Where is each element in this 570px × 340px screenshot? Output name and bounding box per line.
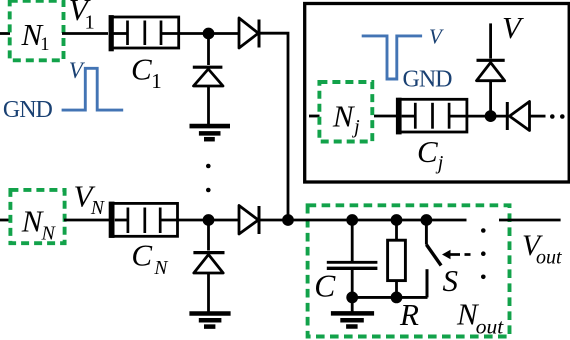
diode DJ (pointing left at node J) bbox=[507, 102, 529, 131]
svg-text:C: C bbox=[314, 269, 336, 304]
wire node J up to diode DV bbox=[489, 81, 492, 116]
svg-text:GND: GND bbox=[3, 97, 53, 123]
junction node R-bottom bbox=[391, 292, 403, 304]
svg-text:V1: V1 bbox=[69, 0, 95, 33]
wire NN to CN bbox=[64, 219, 109, 222]
wire C1 to node A bbox=[179, 32, 238, 35]
svg-text:Nj: Nj bbox=[332, 98, 360, 138]
wire Nj to Cj bbox=[374, 115, 397, 118]
junction node B bbox=[203, 214, 215, 226]
output wire Vout bbox=[499, 219, 561, 222]
wire DN to output node bbox=[260, 219, 288, 222]
junction node J bbox=[485, 110, 497, 122]
svg-text:S: S bbox=[443, 263, 459, 298]
diode DV (to supply V, pointing up) bbox=[477, 60, 505, 80]
actuation arrow (dashed, points at blade) bbox=[442, 250, 471, 259]
inset detail box (stage j) bbox=[305, 4, 570, 183]
svg-text:GND: GND bbox=[403, 66, 453, 92]
horizontal ellipsis (chain continues) bbox=[550, 114, 555, 119]
junction node S-top bbox=[421, 214, 433, 226]
neuron block NN (green dashed box) bbox=[10, 190, 64, 243]
junction node R-top bbox=[391, 214, 403, 226]
junction node OUT (bus joins) bbox=[282, 214, 294, 226]
junction node A bbox=[203, 28, 215, 40]
neuron block Nj (green dashed box) bbox=[319, 82, 372, 142]
junction node C-top bbox=[346, 214, 358, 226]
bottom rail wire bbox=[352, 296, 427, 299]
memcapacitor CN bbox=[109, 202, 178, 238]
ground Gout bbox=[331, 297, 374, 326]
svg-text:VN: VN bbox=[74, 179, 105, 219]
svg-text:V: V bbox=[69, 58, 86, 83]
clamp diode D2 (to ground, pointing up) bbox=[193, 34, 223, 126]
wire DJ to continuation dots bbox=[530, 115, 546, 118]
neuron block N1 (green dashed box) bbox=[10, 1, 64, 61]
ground GN bbox=[189, 314, 230, 327]
wire CN to node B bbox=[178, 219, 238, 222]
input pulse waveform 1 (positive pulse) bbox=[62, 68, 124, 110]
wire input stub to N1 bbox=[0, 32, 10, 35]
vertical ellipsis (repeated stages) bbox=[206, 164, 211, 169]
resistor R bbox=[388, 220, 406, 297]
ground G1 bbox=[190, 126, 231, 139]
capacitor C bbox=[327, 220, 378, 297]
svg-text:Nout: Nout bbox=[456, 297, 504, 339]
output block Nout (green dashed box) bbox=[308, 205, 510, 336]
memcapacitor Cj bbox=[396, 98, 467, 135]
wire input stub to Nj bbox=[309, 115, 320, 118]
svg-text:Vout: Vout bbox=[522, 230, 562, 269]
svg-text:V: V bbox=[429, 25, 444, 49]
wire diode DV to V supply bbox=[489, 23, 492, 58]
vertical ellipsis (more outputs) bbox=[481, 228, 486, 233]
output rail wire bbox=[288, 219, 467, 222]
svg-text:CN: CN bbox=[131, 238, 168, 279]
switch S (blade open) bbox=[426, 220, 441, 297]
wire N1 to C1 bbox=[62, 32, 108, 35]
svg-text:Cj: Cj bbox=[417, 134, 444, 174]
input pulse waveform j (negative pulse) bbox=[362, 36, 422, 79]
svg-text:R: R bbox=[399, 297, 419, 332]
wire D1 to output bus corner bbox=[260, 33, 288, 219]
junction node C-bottom bbox=[346, 292, 358, 304]
svg-text:C1: C1 bbox=[131, 52, 162, 93]
svg-text:V: V bbox=[502, 10, 524, 45]
clamp diode DNg (to ground, pointing up) bbox=[193, 220, 224, 313]
wire Cj to node J bbox=[467, 115, 506, 118]
memcapacitor C1 bbox=[109, 15, 179, 51]
diode DN series (pointing right) bbox=[239, 206, 259, 235]
diode D1 series (pointing right) bbox=[239, 18, 259, 48]
wire input stub to NN bbox=[0, 219, 10, 222]
svg-text:NN: NN bbox=[21, 204, 57, 245]
svg-text:N1: N1 bbox=[21, 17, 50, 55]
